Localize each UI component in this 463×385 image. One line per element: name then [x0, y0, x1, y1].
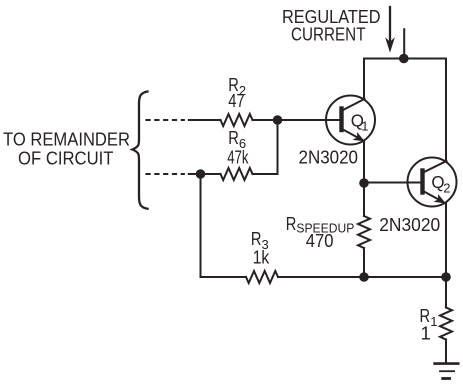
svg-text:R: R: [228, 127, 239, 148]
transistor Q1: [326, 96, 375, 145]
resistor R1: [440, 308, 452, 340]
dashed wire to R6: [146, 173, 185, 175]
brace (to remainder of circuit): [132, 92, 147, 209]
svg-text:1: 1: [361, 118, 368, 133]
resistor R3: [246, 271, 278, 283]
svg-text:470: 470: [306, 230, 334, 251]
svg-text:1: 1: [421, 322, 431, 343]
node B junction dot (Q1 emitter / Q2 base / Rspeedup): [359, 178, 369, 188]
svg-text:1: 1: [430, 314, 437, 329]
svg-text:47k: 47k: [227, 147, 249, 168]
svg-text:47: 47: [228, 90, 244, 111]
top wire: [364, 58, 446, 60]
label R1: [420, 305, 438, 344]
wire R2 to Q1 base: [253, 119, 342, 121]
wire node E to R6: [189, 173, 221, 175]
wire top to Q1 collector: [363, 59, 365, 100]
label R3: [251, 228, 269, 252]
transistor Q2: [408, 158, 457, 207]
ground: [435, 364, 459, 379]
resistor RSPEEDUP: [358, 216, 370, 248]
wire Q2 emitter down to node D: [445, 203, 447, 308]
wire stub above node A: [403, 29, 405, 57]
wire R2 node down to R6: [277, 120, 279, 174]
label R6: [228, 127, 246, 151]
wire dashed to R2: [189, 119, 221, 121]
node F junction dot (Rspeedup bottom): [359, 272, 369, 282]
resistor R6: [221, 168, 253, 180]
node E junction dot (R6 left): [196, 169, 206, 179]
wire node E down to R3 row: [200, 174, 202, 277]
wire R3 left lead: [201, 276, 247, 278]
regulated current input arrow: [385, 7, 395, 53]
wire R6 to vertical connector: [253, 173, 278, 175]
wire node B to Q2 base: [364, 182, 423, 184]
label Q2: [431, 172, 450, 195]
wire Q1 emitter down to node B: [363, 141, 365, 216]
svg-text:1k: 1k: [253, 247, 270, 268]
label REGULATED CURRENT: [282, 7, 381, 45]
wire RSPEEDUP bottom lead: [363, 248, 365, 277]
svg-text:OF CIRCUIT: OF CIRCUIT: [18, 147, 114, 168]
svg-text:TO REMAINDER: TO REMAINDER: [3, 128, 130, 149]
svg-text:CURRENT: CURRENT: [291, 25, 366, 45]
label R2: [228, 74, 246, 98]
label TO REMAINDER OF CIRCUIT: [3, 128, 130, 168]
svg-text:2: 2: [443, 180, 450, 195]
label RSPEEDUP: [286, 213, 355, 236]
wire R1 to ground: [445, 340, 447, 364]
node C junction dot (R2/R6 junction): [273, 115, 283, 125]
bottom wire R3 to node D: [278, 276, 446, 278]
wire top to Q2 collector: [445, 59, 447, 162]
resistor R2: [221, 114, 253, 126]
svg-text:R: R: [286, 213, 297, 234]
dashed wire to R2: [146, 119, 185, 121]
node A junction dot: [399, 54, 409, 64]
svg-text:2N3020: 2N3020: [379, 214, 440, 235]
svg-text:2N3020: 2N3020: [299, 147, 359, 168]
node D junction dot (R1 top): [441, 272, 451, 282]
label Q1: [351, 111, 369, 134]
